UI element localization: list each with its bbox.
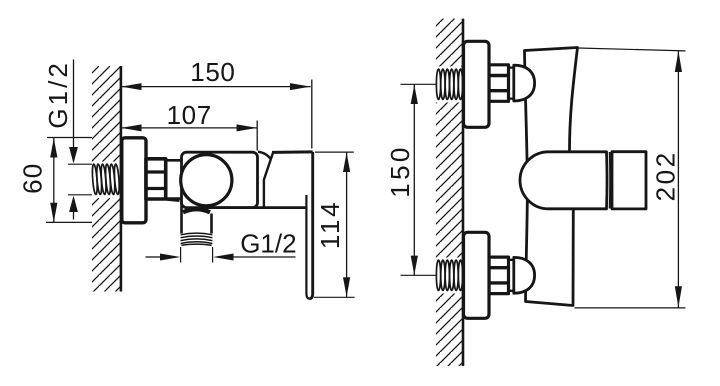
svg-text:G1/2: G1/2 xyxy=(43,60,73,128)
svg-text:G1/2: G1/2 xyxy=(240,229,296,259)
svg-text:60: 60 xyxy=(17,163,47,194)
svg-text:150: 150 xyxy=(385,144,415,198)
svg-text:114: 114 xyxy=(315,200,345,249)
svg-text:150: 150 xyxy=(190,57,235,87)
svg-text:107: 107 xyxy=(167,100,212,130)
svg-text:202: 202 xyxy=(651,150,681,201)
